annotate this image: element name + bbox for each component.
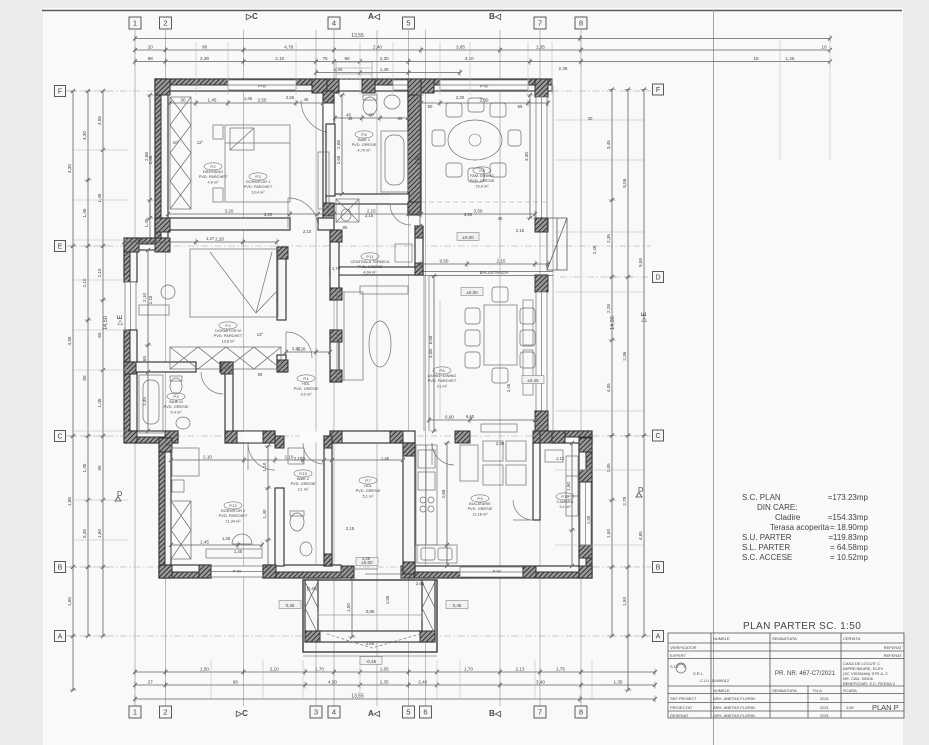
svg-text:1,90: 1,90 xyxy=(586,515,591,524)
svg-text:5,4 m²: 5,4 m² xyxy=(170,409,182,414)
sink bath1 xyxy=(384,95,400,109)
left dimension chain col3 xyxy=(100,89,107,638)
desk master xyxy=(139,285,175,315)
svg-text:1,45: 1,45 xyxy=(97,398,102,407)
svg-text:10: 10 xyxy=(821,44,827,49)
boiler centrala xyxy=(395,244,412,262)
svg-text:2,68: 2,68 xyxy=(336,155,341,164)
svg-text:2,05: 2,05 xyxy=(606,463,611,472)
grid marker 4 bottom xyxy=(328,706,340,718)
door arc bath-left xyxy=(201,372,223,394)
svg-text:PROIECTAT: PROIECTAT xyxy=(670,705,693,710)
room label bath1 xyxy=(352,131,377,152)
svg-text:1,47: 1,47 xyxy=(135,236,144,241)
svg-text:1,45: 1,45 xyxy=(208,97,217,102)
svg-text:1,45: 1,45 xyxy=(97,193,102,202)
extension lines top area xyxy=(72,40,830,700)
svg-text:46: 46 xyxy=(348,116,353,121)
svg-text:30: 30 xyxy=(588,116,593,121)
svg-text:9,58: 9,58 xyxy=(638,258,643,267)
horizontal grid axis lines xyxy=(66,91,651,636)
svg-text:2,15: 2,15 xyxy=(365,213,374,218)
svg-text:13,55: 13,55 xyxy=(351,693,364,699)
internal dim chain master row xyxy=(122,239,279,246)
svg-text:8: 8 xyxy=(579,708,583,717)
svg-text:13°: 13° xyxy=(257,332,264,337)
svg-text:1,45: 1,45 xyxy=(222,536,231,541)
door arc baie2 xyxy=(303,443,324,464)
wardrobe dorm1 (x-hatch) xyxy=(170,97,191,209)
svg-text:2,10: 2,10 xyxy=(275,56,284,61)
right dimension chain col3 xyxy=(641,88,648,639)
wall right wing west pier xyxy=(533,431,540,443)
svg-text:65: 65 xyxy=(142,356,147,362)
svg-text:4,9 m²: 4,9 m² xyxy=(207,179,219,184)
svg-text:2,10: 2,10 xyxy=(285,454,294,459)
door arc vestibule xyxy=(301,100,334,133)
svg-text:2,10: 2,10 xyxy=(303,229,312,234)
wall dorm1 south xyxy=(155,218,290,230)
door opening dorm1 east gap xyxy=(324,99,334,133)
svg-text:1,50: 1,50 xyxy=(606,529,611,538)
room label kitchen xyxy=(468,495,493,516)
svg-text:8,58: 8,58 xyxy=(622,178,627,187)
wall exterior left upper xyxy=(155,79,168,240)
scattered dimension texts xyxy=(148,95,597,646)
sideboard hall xyxy=(360,286,408,294)
internal vertical chain bottom rooms xyxy=(265,444,272,568)
svg-text:98: 98 xyxy=(202,44,208,49)
svg-text:1,40: 1,40 xyxy=(334,67,343,72)
left dimension chain col2 xyxy=(85,89,92,638)
terrace left post xyxy=(305,580,318,642)
svg-text:2,80: 2,80 xyxy=(496,441,505,446)
window living east xyxy=(536,292,547,411)
wall living east segment2 xyxy=(535,411,548,443)
grid marker 8 top xyxy=(575,17,587,29)
hall-living separator xyxy=(424,276,429,431)
svg-text:1,45: 1,45 xyxy=(362,556,371,561)
terrace slope dashed line xyxy=(327,634,420,648)
grid marker 3 bottom xyxy=(310,706,322,718)
svg-text:P=90: P=90 xyxy=(258,85,267,89)
dining table xyxy=(432,98,521,182)
wall dorm2 east lower xyxy=(275,488,284,566)
svg-text:1,50: 1,50 xyxy=(200,666,209,671)
svg-text:BALUSTRADA: BALUSTRADA xyxy=(480,270,509,275)
svg-text:VERIFICATOR: VERIFICATOR xyxy=(670,645,697,650)
grid marker B right xyxy=(653,562,664,573)
wall exterior left master segment2 xyxy=(124,330,137,431)
svg-text:2,30: 2,30 xyxy=(480,97,489,102)
svg-text:4,50: 4,50 xyxy=(328,679,337,684)
svg-text:4,79 m²: 4,79 m² xyxy=(357,147,371,152)
svg-text:1,70: 1,70 xyxy=(464,666,473,671)
wall dorm2 east xyxy=(275,436,284,448)
wall row C center xyxy=(233,431,275,443)
svg-text:3,20: 3,20 xyxy=(225,208,234,213)
window top wall dining xyxy=(440,80,528,90)
wall bath-left north segment2 xyxy=(220,362,233,372)
svg-text:60: 60 xyxy=(398,116,403,121)
wall exterior top (dining) xyxy=(421,79,552,91)
svg-text:-0,45: -0,45 xyxy=(366,659,377,664)
svg-text:1,86: 1,86 xyxy=(67,497,72,506)
grid marker 4 top xyxy=(328,17,340,29)
svg-text:2,10: 2,10 xyxy=(203,454,212,459)
wall master east upper xyxy=(277,247,286,320)
svg-text:2: 2 xyxy=(163,708,167,717)
svg-text:90: 90 xyxy=(428,104,433,109)
grid marker B left xyxy=(55,562,66,573)
exterior face line dining-living east xyxy=(552,85,554,437)
wall exterior bottom segment2 xyxy=(263,565,341,578)
wall hall west lower xyxy=(330,330,339,382)
svg-text:20: 20 xyxy=(148,44,154,49)
svg-text:P=90: P=90 xyxy=(233,570,242,574)
svg-text:2,30: 2,30 xyxy=(380,56,389,61)
grid marker D right xyxy=(653,272,664,283)
terrace outer boundary xyxy=(303,580,437,652)
svg-text:1,90: 1,90 xyxy=(566,482,571,491)
top dimension chain row3 xyxy=(133,58,832,65)
grid marker 6 bottom xyxy=(420,706,432,718)
title block table xyxy=(668,633,904,718)
svg-text:2,66: 2,66 xyxy=(148,155,153,164)
svg-text:B◁: B◁ xyxy=(489,12,502,21)
sink bath-left xyxy=(176,417,190,429)
svg-text:1,70: 1,70 xyxy=(332,266,341,271)
terrace bottom band pier left xyxy=(305,631,320,642)
svg-text:0,45: 0,45 xyxy=(453,603,462,608)
radiator dorm1 xyxy=(318,152,329,209)
svg-text:98: 98 xyxy=(148,56,154,61)
shower bath1 xyxy=(336,199,359,222)
room label master xyxy=(214,322,243,343)
grid marker C left xyxy=(55,431,66,442)
wall living south piers xyxy=(455,431,470,443)
svg-text:2,55: 2,55 xyxy=(286,95,295,100)
wardrobe dorm2 (x-hatch) xyxy=(171,501,191,559)
svg-text:1,93: 1,93 xyxy=(622,597,627,606)
roof overhang dashed line dining xyxy=(421,201,548,203)
svg-text:3,85: 3,85 xyxy=(366,609,375,614)
svg-text:4,08: 4,08 xyxy=(428,349,433,358)
svg-text:2,45: 2,45 xyxy=(506,383,511,392)
bench dorm2 window xyxy=(206,549,262,558)
bed master xyxy=(190,249,278,317)
svg-text:4,90: 4,90 xyxy=(67,336,72,345)
door opening bath1 xyxy=(390,195,407,204)
room label dressing xyxy=(199,163,228,184)
svg-text:A◁: A◁ xyxy=(368,12,381,21)
svg-text:= 10.52mp: = 10.52mp xyxy=(830,553,869,562)
svg-text:3,65: 3,65 xyxy=(456,44,465,49)
internal dim chain hall row xyxy=(284,349,332,356)
svg-text:1:50: 1:50 xyxy=(846,705,855,710)
svg-text:2,15: 2,15 xyxy=(346,526,355,531)
bottom dimension chain total xyxy=(133,696,657,703)
wall centrala south xyxy=(330,267,423,275)
internal vertical chain right wing xyxy=(569,441,576,568)
room label camara xyxy=(556,493,574,509)
svg-text:REFERAT: REFERAT xyxy=(884,653,903,658)
svg-text:1,45: 1,45 xyxy=(82,463,87,472)
wall row C kitchen-west xyxy=(330,431,415,443)
svg-text:2,40: 2,40 xyxy=(373,44,382,49)
svg-text:11,34 m²: 11,34 m² xyxy=(225,518,241,523)
armchair dorm2 xyxy=(232,534,252,544)
grid marker 1 bottom xyxy=(129,706,141,718)
svg-text:1,70: 1,70 xyxy=(315,666,324,671)
svg-text:2021: 2021 xyxy=(820,713,830,718)
rug living xyxy=(439,300,441,420)
svg-text:2,78: 2,78 xyxy=(622,496,627,505)
svg-text:=154.33mp: =154.33mp xyxy=(828,513,869,522)
svg-text:DESENAT: DESENAT xyxy=(670,713,689,718)
grid marker 5 top xyxy=(403,17,415,29)
svg-text:14,36: 14,36 xyxy=(610,316,616,330)
svg-text:2,10: 2,10 xyxy=(82,278,87,287)
wall dining east top pier xyxy=(535,79,548,97)
grid marker 1 top xyxy=(129,17,141,29)
sink baie2 xyxy=(300,542,312,556)
svg-text:12°: 12° xyxy=(197,140,204,145)
svg-text:14,50: 14,50 xyxy=(103,316,109,330)
wall step master-bedroom top xyxy=(124,238,168,250)
svg-text:A: A xyxy=(58,634,63,641)
svg-text:3,50: 3,50 xyxy=(464,212,473,217)
wall living south pier2 xyxy=(535,431,553,443)
window top wall dorm1 xyxy=(228,80,296,90)
svg-text:4: 4 xyxy=(332,19,336,28)
svg-text:F: F xyxy=(58,89,62,96)
internal dim chain dorm1 top row xyxy=(168,100,325,107)
svg-text:2,68: 2,68 xyxy=(441,489,446,498)
wall kitchen west xyxy=(403,443,415,574)
svg-text:5: 5 xyxy=(406,19,410,28)
svg-text:2,36: 2,36 xyxy=(622,351,627,360)
svg-text:C.U.I. 14406012: C.U.I. 14406012 xyxy=(700,678,730,683)
svg-text:10°: 10° xyxy=(173,140,180,145)
entrance steps top xyxy=(336,62,372,79)
internal vertical chain master left xyxy=(145,248,152,433)
svg-text:9,50: 9,50 xyxy=(440,258,449,263)
wall bath1 east xyxy=(408,82,421,214)
grid marker C right xyxy=(653,430,664,441)
svg-text:1,50: 1,50 xyxy=(385,595,390,604)
svg-text:90: 90 xyxy=(258,372,263,377)
sliding door terrace opening xyxy=(341,566,401,578)
grid marker 7 top xyxy=(534,17,546,29)
wall living east segment1 xyxy=(535,275,548,292)
svg-text:13,8 m²: 13,8 m² xyxy=(221,338,235,343)
svg-text:A: A xyxy=(656,634,661,641)
svg-text:1,45: 1,45 xyxy=(200,539,209,544)
svg-text:NUMELE: NUMELE xyxy=(713,636,730,641)
terrace right post xyxy=(422,580,435,642)
svg-text:1,25: 1,25 xyxy=(786,56,795,61)
wall bath-left bottom connector xyxy=(124,431,178,443)
level label -0.45 terrace xyxy=(360,657,382,665)
svg-text:55: 55 xyxy=(518,104,523,109)
left dimension chain col1 xyxy=(70,89,77,692)
wall exterior bottom left bedroom xyxy=(159,565,211,578)
wall right wing top xyxy=(552,431,592,443)
couch bottom right xyxy=(460,441,526,485)
wall bath1 west xyxy=(326,124,335,196)
svg-text:6,60: 6,60 xyxy=(445,414,454,419)
internal vertical chain hall xyxy=(417,93,424,228)
svg-text:1,50: 1,50 xyxy=(67,597,72,606)
kitchen counter xyxy=(416,445,437,545)
svg-text:60: 60 xyxy=(368,112,374,117)
svg-text:2,30: 2,30 xyxy=(456,95,465,100)
grid marker 2 bottom xyxy=(160,706,172,718)
door arc dorm1 xyxy=(288,198,318,228)
wall bath-left east xyxy=(225,372,233,443)
top dimension chain total 13,55 xyxy=(133,35,832,42)
svg-text:PLAN P: PLAN P xyxy=(872,703,899,712)
internal dim chain bottom rooms row xyxy=(169,457,405,464)
room label dorm1 xyxy=(244,173,273,194)
bottom dimension chain row2 xyxy=(133,682,657,689)
svg-text:2,66: 2,66 xyxy=(366,641,375,646)
svg-text:13,55: 13,55 xyxy=(351,33,364,39)
door arc master xyxy=(286,332,312,358)
wall right wing west xyxy=(533,443,540,520)
svg-text:1: 1 xyxy=(133,19,137,28)
grid marker A left xyxy=(55,631,66,642)
room label bath-left xyxy=(164,393,189,414)
svg-text:3,1 m²: 3,1 m² xyxy=(297,486,309,491)
svg-text:2,38: 2,38 xyxy=(200,56,209,61)
room label centrala xyxy=(350,253,389,274)
svg-text:75: 75 xyxy=(322,56,328,61)
svg-text:5,1 m²: 5,1 m² xyxy=(362,493,374,498)
wall bath-left north xyxy=(124,362,196,372)
door opening centrala xyxy=(340,268,362,275)
svg-text:2,13: 2,13 xyxy=(516,666,525,671)
svg-text:7: 7 xyxy=(538,19,542,28)
svg-text:CERINTA: CERINTA xyxy=(843,636,861,641)
top dimension chain row2 xyxy=(133,47,832,54)
sofa hall xyxy=(337,292,363,380)
svg-text:1: 1 xyxy=(133,708,137,717)
svg-text:2021: 2021 xyxy=(820,696,830,701)
svg-text:30: 30 xyxy=(166,442,171,447)
grid marker F right xyxy=(653,84,664,95)
internal dim chain living bottom xyxy=(427,417,537,424)
grid marker F left xyxy=(55,86,66,97)
title block logo xyxy=(676,663,686,673)
svg-text:90: 90 xyxy=(343,225,348,230)
svg-text:1,50: 1,50 xyxy=(97,529,102,538)
toilet bath-left xyxy=(170,376,182,394)
wall centrala east xyxy=(415,226,423,275)
cabinet living east xyxy=(523,300,533,395)
svg-text:11,18 m²: 11,18 m² xyxy=(472,511,488,516)
svg-text:45: 45 xyxy=(498,216,503,221)
svg-text:±0,00: ±0,00 xyxy=(462,235,474,240)
vertical grid axis lines xyxy=(135,30,581,706)
svg-text:98: 98 xyxy=(233,679,239,684)
room label dining xyxy=(470,167,495,188)
balustrade living north xyxy=(423,272,553,276)
svg-text:4,05: 4,05 xyxy=(606,383,611,392)
level label +0.00 living xyxy=(461,288,483,296)
svg-text:▷E: ▷E xyxy=(641,312,648,322)
svg-text:2,40: 2,40 xyxy=(418,679,427,684)
svg-text:2,10: 2,10 xyxy=(142,293,147,302)
right dimension chain col2 xyxy=(625,88,632,693)
svg-text:4,30: 4,30 xyxy=(67,164,72,173)
svg-text:46: 46 xyxy=(304,97,309,102)
svg-text:BENEFICIAR: S.C. RVDSA 2: BENEFICIAR: S.C. RVDSA 2 xyxy=(843,681,896,686)
room label hall xyxy=(294,375,319,396)
washer baie2 xyxy=(288,448,304,464)
sheet top border line xyxy=(42,10,902,12)
svg-text:85: 85 xyxy=(82,375,87,381)
grid marker 5 bottom xyxy=(403,706,415,718)
svg-text:3: 3 xyxy=(314,708,318,717)
svg-text:3,45: 3,45 xyxy=(606,140,611,149)
toilet baie2 xyxy=(290,511,304,531)
svg-text:3,20: 3,20 xyxy=(264,212,273,217)
left dimension chain col4 xyxy=(147,198,154,248)
svg-text:2,10: 2,10 xyxy=(270,666,279,671)
svg-text:1,45: 1,45 xyxy=(82,208,87,217)
piers at wall junctions xyxy=(155,79,170,95)
tub bath1 xyxy=(381,131,408,192)
internal dim chain under dorm1 row xyxy=(166,211,537,218)
svg-text:13,4 m²: 13,4 m² xyxy=(251,189,265,194)
svg-text:Cladire: Cladire xyxy=(775,513,801,522)
wall exterior bottom right of terrace xyxy=(401,566,592,578)
svg-text:ARH. ANETAS FLORIN: ARH. ANETAS FLORIN xyxy=(713,696,755,701)
svg-text:= 64.58mp: = 64.58mp xyxy=(830,543,869,552)
svg-text:S.C.: S.C. xyxy=(670,664,678,669)
svg-text:27: 27 xyxy=(148,679,154,684)
internal vertical chain bath1 xyxy=(339,93,346,196)
svg-text:4,55: 4,55 xyxy=(97,116,102,125)
bed dorm1 xyxy=(213,125,290,202)
wall dorm1 east xyxy=(323,97,334,218)
level label +0.00 dining xyxy=(457,233,479,241)
svg-text:ARH. ANETAS FLORIN: ARH. ANETAS FLORIN xyxy=(713,705,755,710)
svg-text:2,10: 2,10 xyxy=(148,295,153,304)
svg-text:1,48: 1,48 xyxy=(416,155,421,164)
svg-text:2021: 2021 xyxy=(820,705,830,710)
kitchen sink unit xyxy=(417,545,457,563)
svg-text:PR. NR. 467-C7/2021: PR. NR. 467-C7/2021 xyxy=(775,670,836,677)
terrace dim 3,85 xyxy=(318,611,422,619)
svg-text:6,60: 6,60 xyxy=(466,414,475,419)
svg-text:S.U. PARTER: S.U. PARTER xyxy=(742,533,792,542)
svg-text:▷E: ▷E xyxy=(117,315,124,325)
wall baie2 east xyxy=(324,436,332,566)
door arc dorm2 xyxy=(248,443,275,470)
svg-text:B: B xyxy=(58,565,63,572)
svg-text:NUMELE: NUMELE xyxy=(713,688,730,693)
grid marker 7 bottom xyxy=(534,706,546,718)
svg-text:S.R.L.: S.R.L. xyxy=(693,671,704,676)
svg-text:21 m²: 21 m² xyxy=(437,383,448,388)
chimney detail right of dining xyxy=(547,218,567,270)
svg-text:4,78: 4,78 xyxy=(284,44,293,49)
room label dorm2 xyxy=(219,502,248,523)
room label living xyxy=(428,367,457,388)
